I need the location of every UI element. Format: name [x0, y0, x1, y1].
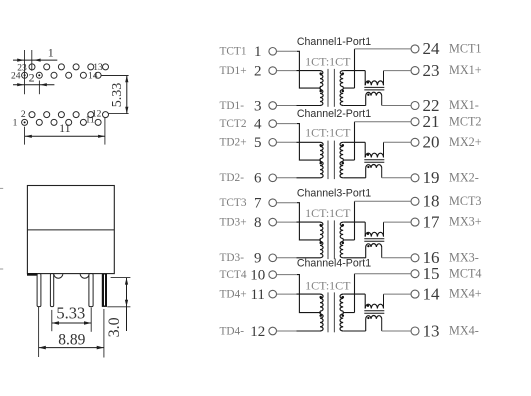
- svg-text:3: 3: [254, 98, 262, 114]
- pin 20 MX2+: [411, 133, 482, 152]
- wire secondary top to choke: [343, 142, 365, 157]
- pin 1 TCT1: [220, 44, 277, 60]
- wire secondary top to choke: [343, 71, 365, 86]
- pin lead B: [50, 274, 53, 307]
- pin 19 MX2-: [411, 168, 479, 187]
- transformer T3 secondary winding: [340, 222, 343, 258]
- svg-text:1CT:1CT: 1CT:1CT: [305, 55, 351, 69]
- svg-text:MX4+: MX4+: [449, 287, 482, 301]
- wire secondary bottom to choke: [343, 96, 366, 106]
- wire secondary bottom to choke: [343, 319, 366, 331]
- polarity dot choke bottom: [367, 317, 369, 319]
- transformer T1 core: [328, 69, 334, 107]
- polarity dot primary lower: [319, 90, 322, 93]
- pin 12 TD4-: [220, 324, 277, 340]
- pin 24 MCT1: [411, 39, 482, 58]
- pin 5 TD2+: [220, 135, 277, 151]
- wire choke to pin 14: [384, 294, 412, 308]
- polarity dot secondary lower: [342, 162, 345, 165]
- pin 22 MX1-: [411, 96, 479, 115]
- pin 7 TCT3: [220, 196, 277, 212]
- pin 2 TD1+: [220, 64, 277, 80]
- center marks pins 24 and 22: [24, 74, 41, 76]
- svg-text:1CT:1CT: 1CT:1CT: [305, 278, 351, 292]
- transformer T3 primary winding: [320, 222, 323, 258]
- wire TD2- pin 6 to primary bottom: [277, 177, 321, 179]
- svg-text:1: 1: [48, 46, 54, 60]
- polarity dot primary lower: [319, 162, 322, 165]
- svg-text:MX2+: MX2+: [449, 135, 482, 149]
- svg-text:MX1+: MX1+: [449, 63, 482, 77]
- wire secondary center tap to pin 24: [343, 49, 411, 88]
- transformer T2 secondary winding: [340, 142, 343, 178]
- polarity dot primary upper: [319, 224, 322, 227]
- svg-text:1: 1: [13, 118, 18, 128]
- polarity dot secondary upper: [342, 144, 345, 147]
- pin lead C: [89, 274, 93, 307]
- svg-text:14: 14: [423, 284, 441, 303]
- center mark pin 1: [24, 121, 26, 123]
- wire choke to pin 16: [382, 247, 411, 258]
- pin lead A: [37, 274, 41, 307]
- wire TCT1 pin 1 to primary center tap: [277, 51, 322, 88]
- wire secondary bottom to choke: [343, 168, 366, 178]
- choke L4 core: [364, 311, 384, 314]
- common-mode choke L3 top winding: [365, 232, 383, 236]
- svg-text:MCT4: MCT4: [449, 266, 482, 280]
- svg-text:10: 10: [250, 268, 265, 284]
- svg-text:24: 24: [423, 39, 441, 58]
- svg-text:9: 9: [254, 251, 262, 267]
- svg-text:5: 5: [254, 135, 262, 151]
- transformer T4 core: [328, 292, 334, 332]
- svg-text:TD4-: TD4-: [220, 325, 245, 337]
- svg-text:MCT1: MCT1: [449, 42, 482, 56]
- svg-text:13: 13: [423, 321, 440, 340]
- wire choke to pin 20: [384, 142, 412, 157]
- wire TD1- pin 3 to primary bottom: [277, 105, 321, 107]
- pin 18 MCT3: [411, 192, 482, 211]
- svg-text:TD3-: TD3-: [220, 252, 245, 264]
- dimension 5.33 (row separation): [101, 76, 128, 114]
- pin 16 MX3-: [411, 248, 479, 267]
- svg-text:1: 1: [254, 44, 262, 60]
- pin 11 TD4+: [220, 287, 277, 303]
- svg-text:MCT3: MCT3: [449, 194, 482, 208]
- common-mode choke L3 bottom winding: [366, 244, 382, 247]
- standoff bump 2: [80, 274, 89, 279]
- wire secondary center tap to pin 15: [343, 274, 411, 313]
- svg-text:17: 17: [423, 212, 441, 231]
- pin 4 TCT2: [220, 117, 277, 133]
- svg-text:18: 18: [423, 192, 440, 211]
- svg-text:TD1-: TD1-: [220, 100, 245, 112]
- common-mode choke L1 bottom winding: [366, 92, 382, 95]
- dimension 11 (row span): [25, 118, 105, 145]
- svg-text:MX4-: MX4-: [449, 324, 479, 338]
- wire choke to pin 19: [382, 168, 411, 178]
- polarity dot primary upper: [319, 72, 322, 75]
- svg-text:5.33: 5.33: [56, 304, 85, 323]
- transformer T2 core: [328, 141, 334, 180]
- svg-text:19: 19: [423, 168, 440, 187]
- pin 21 MCT2: [411, 112, 482, 131]
- wire secondary center tap to pin 18: [343, 201, 411, 240]
- svg-text:14: 14: [88, 72, 98, 82]
- svg-text:24: 24: [11, 71, 21, 81]
- polarity dot choke top: [367, 81, 369, 83]
- svg-text:15: 15: [423, 264, 440, 283]
- polarity dot secondary upper: [342, 72, 345, 75]
- common-mode choke L2 bottom winding: [366, 164, 382, 167]
- svg-text:TD2-: TD2-: [220, 172, 245, 184]
- seating tab bottom-left: [27, 273, 37, 276]
- polarity dot choke top: [367, 154, 369, 156]
- common-mode choke L2 top winding: [365, 153, 383, 157]
- svg-text:7: 7: [254, 196, 262, 212]
- svg-text:1CT:1CT: 1CT:1CT: [305, 206, 351, 220]
- wire TD1+ pin 2 to primary top: [277, 70, 321, 72]
- svg-text:MX2-: MX2-: [449, 170, 479, 184]
- svg-text:11: 11: [250, 287, 264, 303]
- svg-text:TD1+: TD1+: [220, 65, 247, 77]
- wire TCT3 pin 7 to primary center tap: [277, 203, 322, 240]
- transformer T4 secondary winding: [340, 294, 343, 331]
- svg-text:TD3+: TD3+: [220, 217, 247, 229]
- pin 10 TCT4: [220, 268, 277, 284]
- svg-text:TCT4: TCT4: [220, 269, 247, 281]
- transformer T4 primary winding: [320, 294, 323, 331]
- wire TD2+ pin 5 to primary top: [277, 141, 321, 143]
- svg-text:Channel4-Port1: Channel4-Port1: [297, 258, 371, 270]
- choke L1 core: [364, 87, 384, 90]
- pin 14 MX4+: [411, 284, 482, 303]
- dimension 8.89 (outer lead span): [39, 307, 104, 358]
- wire TD4+ pin 11 to primary top: [277, 293, 321, 295]
- polarity dot secondary lower: [342, 314, 345, 317]
- svg-text:20: 20: [423, 133, 440, 152]
- polarity dot primary upper: [319, 144, 322, 147]
- pin 13 MX4-: [411, 321, 479, 340]
- common-mode choke L1 top winding: [365, 81, 383, 85]
- wire secondary bottom to choke: [343, 247, 366, 258]
- pin lead D (section, filled): [102, 274, 107, 307]
- pin 3 TD1-: [220, 98, 277, 114]
- polarity dot secondary lower: [342, 90, 345, 93]
- dimension 1 (pin stagger pitch): [13, 46, 57, 95]
- pin 17 MX3+: [411, 212, 482, 231]
- svg-text:TCT1: TCT1: [220, 46, 247, 58]
- svg-text:1CT:1CT: 1CT:1CT: [305, 125, 351, 139]
- svg-text:TD4+: TD4+: [220, 289, 247, 301]
- svg-text:4: 4: [254, 117, 262, 133]
- svg-text:5.33: 5.33: [110, 83, 125, 108]
- choke L2 core: [364, 160, 384, 163]
- wire choke to pin 22: [382, 96, 411, 106]
- svg-text:11: 11: [86, 115, 95, 125]
- svg-text:MX3+: MX3+: [449, 215, 482, 229]
- dimension 2 (pin pitch): [13, 70, 54, 94]
- svg-text:11: 11: [59, 121, 71, 135]
- edge mark left of body: [0, 188, 3, 269]
- wire choke to pin 17: [384, 222, 412, 237]
- polarity dot choke top: [367, 233, 369, 235]
- wire choke to pin 23: [384, 71, 412, 86]
- polarity dot secondary upper: [342, 224, 345, 227]
- common-mode choke L4 top winding: [365, 304, 383, 308]
- pin 23 MX1+: [411, 61, 482, 80]
- svg-text:Channel2-Port1: Channel2-Port1: [297, 108, 371, 120]
- transformer T1 primary winding: [320, 71, 323, 106]
- svg-text:2: 2: [29, 70, 35, 84]
- wire TD4- pin 12 to primary bottom: [277, 330, 321, 332]
- svg-text:MX1-: MX1-: [449, 98, 479, 112]
- svg-text:23: 23: [423, 61, 440, 80]
- pin 15 MCT4: [411, 264, 482, 283]
- transformer T1 secondary winding: [340, 71, 343, 106]
- common-mode choke L4 bottom winding: [366, 316, 382, 319]
- pin 9 TD3-: [220, 251, 277, 267]
- wire secondary center tap to pin 21: [343, 122, 411, 160]
- svg-text:2: 2: [254, 64, 262, 80]
- polarity dot choke top: [367, 305, 369, 307]
- transformer T3 core: [328, 220, 334, 259]
- svg-text:TCT3: TCT3: [220, 197, 247, 209]
- svg-text:8.89: 8.89: [58, 332, 85, 349]
- polarity dot primary upper: [319, 296, 322, 299]
- transformer T2 primary winding: [320, 142, 323, 178]
- wire TD3+ pin 8 to primary top: [277, 221, 321, 223]
- svg-text:TD2+: TD2+: [220, 137, 247, 149]
- wire TCT2 pin 4 to primary center tap: [277, 124, 322, 160]
- svg-text:MCT2: MCT2: [449, 114, 482, 128]
- wire secondary top to choke: [343, 222, 365, 237]
- pin holes 13,15,17,19,21,23 (upper row): [29, 64, 109, 70]
- svg-text:8: 8: [254, 215, 262, 231]
- pin 6 TD2-: [220, 171, 277, 187]
- svg-text:6: 6: [254, 171, 262, 187]
- wire TCT4 pin 10 to primary center tap: [277, 275, 322, 313]
- choke L3 core: [364, 239, 384, 242]
- dimension 3.0 (lead length): [106, 278, 130, 338]
- polarity dot primary lower: [319, 314, 322, 317]
- wire choke to pin 13: [382, 319, 411, 331]
- svg-text:3.0: 3.0: [106, 317, 123, 337]
- pin holes 14,16,18,20,22,24 (lower row): [22, 72, 102, 78]
- pin 8 TD3+: [220, 215, 277, 231]
- wire secondary top to choke: [343, 294, 365, 308]
- svg-text:MX3-: MX3-: [449, 250, 479, 264]
- standoff bump 1: [54, 274, 63, 279]
- polarity dot choke bottom: [367, 94, 369, 96]
- svg-text:Channel1-Port1: Channel1-Port1: [297, 36, 371, 48]
- pin holes 1,3,5,7,9,11 (lower row): [22, 119, 102, 125]
- package front view body: [27, 186, 114, 274]
- svg-text:12: 12: [250, 324, 265, 340]
- wire TD3- pin 9 to primary bottom: [277, 257, 321, 259]
- pin holes 2,4,6,8,10,12 (upper row): [29, 112, 109, 118]
- svg-text:TCT2: TCT2: [220, 118, 247, 130]
- svg-text:Channel3-Port1: Channel3-Port1: [297, 187, 371, 199]
- polarity dot primary lower: [319, 242, 322, 245]
- polarity dot choke bottom: [367, 245, 369, 247]
- dimension 5.33 (inner lead span): [52, 304, 91, 332]
- svg-text:21: 21: [423, 112, 440, 131]
- svg-text:2: 2: [21, 110, 26, 120]
- polarity dot secondary upper: [342, 296, 345, 299]
- polarity dot secondary lower: [342, 242, 345, 245]
- polarity dot choke bottom: [367, 166, 369, 168]
